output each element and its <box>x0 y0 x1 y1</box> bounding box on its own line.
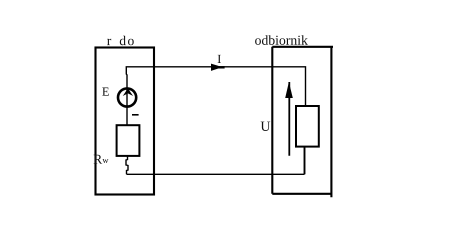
label Rw subscript w <box>102 159 108 163</box>
current arrow I on top wire <box>211 64 223 71</box>
resistor Rw <box>117 125 140 156</box>
voltage arrow U beside load <box>285 82 293 156</box>
wire: top from source circle up and right to load <box>126 67 305 107</box>
label Rw <box>94 155 103 164</box>
label I <box>218 55 221 63</box>
load resistor <box>296 106 319 147</box>
load box label odbiornik <box>255 35 308 45</box>
load box (odbiornik) <box>272 47 333 198</box>
minus sign at source negative terminal <box>132 114 139 116</box>
label U <box>261 122 271 131</box>
wire: jagged from resistor Rw down to bottom wire <box>126 156 128 174</box>
source box label "r d o" <box>107 36 134 46</box>
voltage source U1: circle <box>118 88 136 106</box>
source box (zrodlo) <box>96 48 155 195</box>
voltage source U1: internal arrow <box>123 88 134 96</box>
label E <box>102 88 109 96</box>
wire: load resistor bottom to bottom wire <box>304 147 306 175</box>
voltage source U1: wire through symbol <box>126 88 128 126</box>
wire: bottom return from source to load <box>127 173 305 175</box>
